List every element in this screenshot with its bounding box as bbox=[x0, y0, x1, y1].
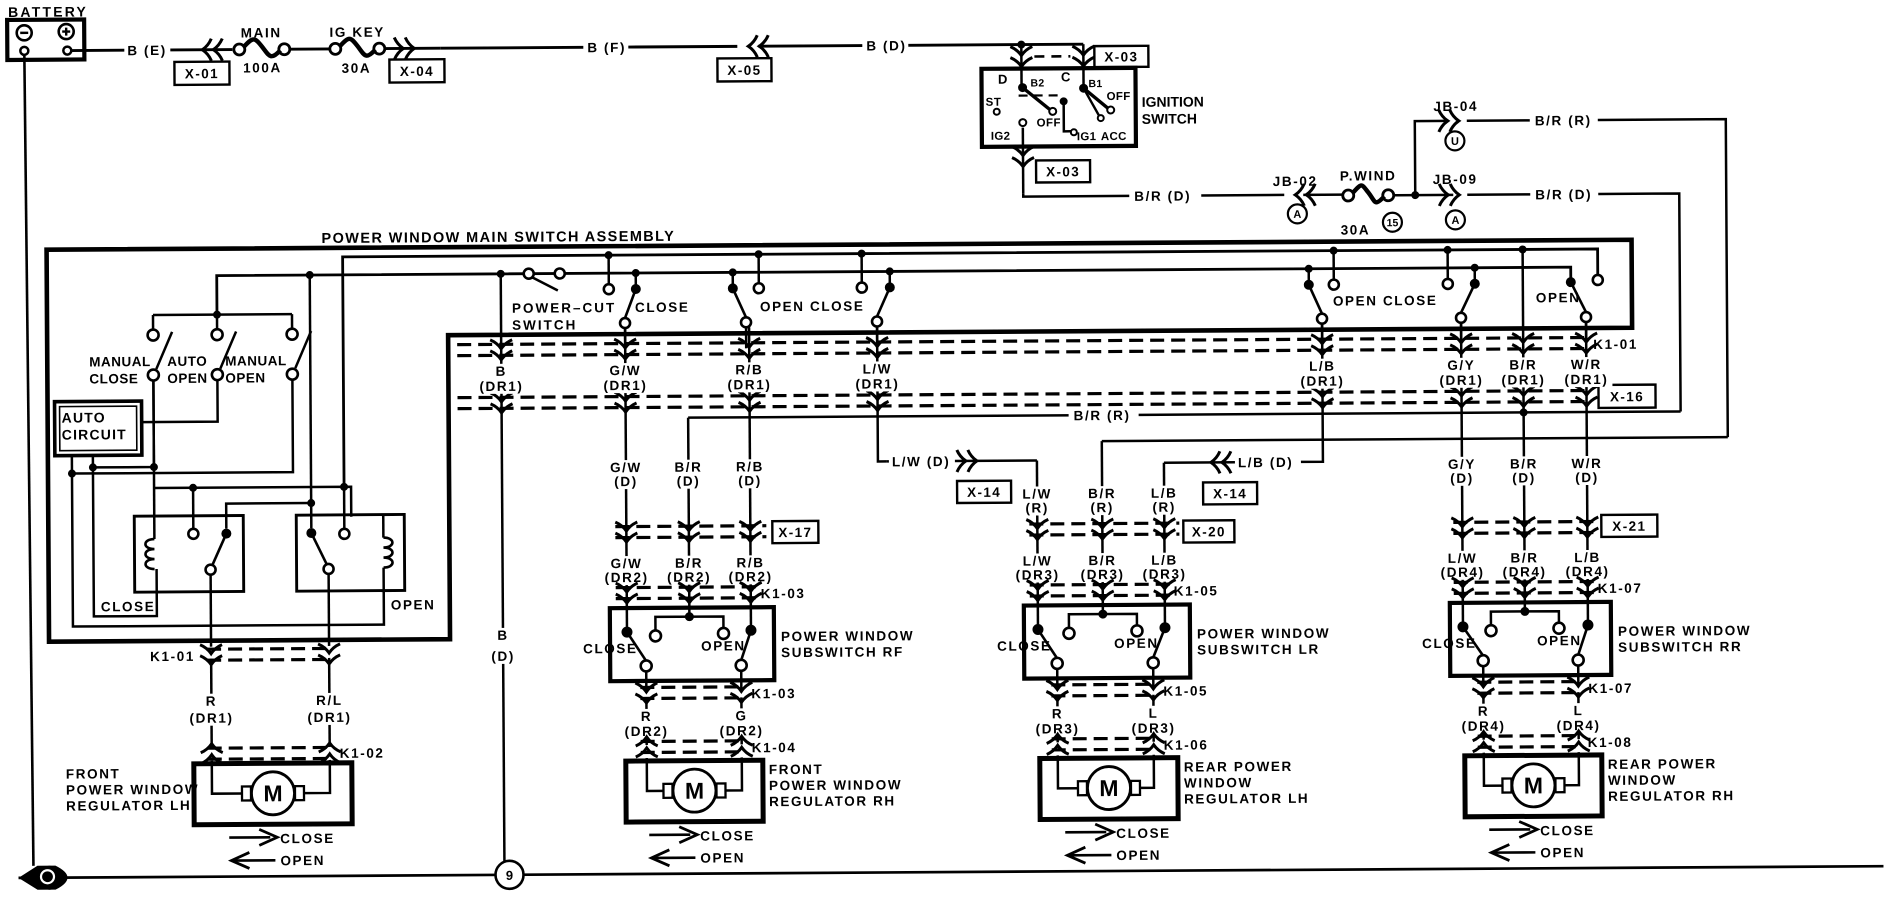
connector K1-03 row lower bbox=[640, 685, 744, 689]
svg-text:G/W: G/W bbox=[609, 363, 641, 378]
connector X-04 label bbox=[389, 59, 444, 82]
wire B/R(D) line A bbox=[688, 411, 1680, 417]
svg-text:OPEN: OPEN bbox=[1114, 636, 1159, 651]
svg-text:CLOSE: CLOSE bbox=[1540, 823, 1595, 838]
svg-text:REGULATOR LH: REGULATOR LH bbox=[1184, 791, 1309, 807]
wire JB-04 B/R(R) bbox=[1467, 119, 1530, 122]
svg-text:W/R: W/R bbox=[1571, 357, 1602, 372]
wire label L (DR3) bbox=[1129, 706, 1177, 736]
svg-text:OPEN: OPEN bbox=[1116, 848, 1161, 863]
wire L/W(D) jog bbox=[887, 459, 1037, 462]
wire label B/R (DR1) bbox=[1497, 357, 1549, 387]
wire label L/B (DR3) bbox=[1140, 553, 1188, 582]
svg-text:AUTO: AUTO bbox=[62, 409, 106, 425]
connector K1-07 row upper bbox=[1454, 580, 1596, 584]
auto circuit box bbox=[55, 401, 142, 456]
connector X-14 label 2 bbox=[1203, 482, 1257, 504]
svg-text:L/W: L/W bbox=[1023, 553, 1053, 568]
svg-text:L/W (D): L/W (D) bbox=[892, 454, 951, 469]
connector JB-02 chevron bbox=[1295, 184, 1315, 206]
wire label R/B (D) bbox=[728, 459, 772, 488]
connector JB-09 circle A bbox=[1446, 210, 1465, 229]
battery B1 bbox=[7, 19, 84, 59]
wire ignition terminal D bbox=[1020, 45, 1023, 86]
relay close contacts bbox=[188, 529, 198, 539]
wire B(E) to X-01 bbox=[170, 48, 232, 51]
svg-text:M: M bbox=[1524, 772, 1543, 798]
switch open front pass bbox=[729, 268, 737, 276]
wire label B/R (D) bbox=[1502, 456, 1546, 485]
svg-text:OPEN: OPEN bbox=[1540, 845, 1585, 860]
svg-text:A: A bbox=[1293, 209, 1301, 221]
svg-text:K1-05: K1-05 bbox=[1174, 583, 1219, 598]
wire relay K1-01 left row bbox=[207, 647, 332, 651]
svg-text:WINDOW: WINDOW bbox=[1608, 772, 1677, 787]
connector X-03 bottom chevron bbox=[1012, 147, 1034, 167]
svg-text:B/R (D): B/R (D) bbox=[1535, 187, 1592, 202]
wire B/R(D) down right side bbox=[1598, 193, 1680, 412]
relay open box K2 bbox=[296, 514, 404, 591]
svg-text:W/R: W/R bbox=[1571, 456, 1602, 471]
connector X-21 row bbox=[1453, 520, 1597, 524]
wire IG2 out bbox=[1022, 128, 1025, 194]
svg-text:(D): (D) bbox=[738, 473, 762, 488]
svg-text:OPEN: OPEN bbox=[701, 638, 746, 653]
connector X-03 label top bbox=[1094, 46, 1148, 67]
svg-text:CIRCUIT: CIRCUIT bbox=[62, 426, 127, 442]
switch open rear right bbox=[1519, 245, 1527, 253]
svg-text:CLOSE: CLOSE bbox=[101, 599, 156, 614]
svg-text:M: M bbox=[263, 780, 282, 806]
svg-text:X-04: X-04 bbox=[400, 64, 434, 79]
svg-text:WINDOW: WINDOW bbox=[1184, 775, 1253, 790]
junction ignition feed bbox=[1017, 41, 1025, 49]
connector X-20 row bbox=[1029, 522, 1179, 526]
motor M2 front RH bbox=[626, 760, 763, 822]
wire label R/B (DR1) bbox=[723, 362, 775, 392]
svg-text:OPEN: OPEN bbox=[1536, 290, 1581, 305]
svg-text:(DR1): (DR1) bbox=[1501, 372, 1545, 387]
connector K1-03 row upper bbox=[616, 585, 759, 589]
svg-text:R: R bbox=[206, 694, 217, 709]
wire label L/W (DR4) bbox=[1438, 551, 1486, 580]
svg-text:B/R (D): B/R (D) bbox=[1134, 189, 1191, 204]
connector X-17 row bbox=[615, 524, 766, 528]
wire label B/R (D) bbox=[666, 460, 710, 489]
switch open rear left bbox=[1305, 265, 1313, 273]
svg-text:OFF: OFF bbox=[1107, 91, 1131, 103]
wire B/R right column bbox=[1523, 249, 1525, 602]
svg-text:MAIN: MAIN bbox=[241, 25, 282, 40]
power window subswitch LR box bbox=[1024, 605, 1190, 679]
svg-text:9: 9 bbox=[506, 868, 513, 883]
svg-text:K1-07: K1-07 bbox=[1598, 581, 1643, 596]
svg-text:(R): (R) bbox=[1090, 500, 1114, 515]
svg-text:P.WIND: P.WIND bbox=[1340, 168, 1397, 183]
fuse P.WIND circle 15 bbox=[1383, 213, 1402, 232]
junction B column bbox=[497, 270, 505, 278]
svg-text:POWER WINDOW: POWER WINDOW bbox=[781, 628, 914, 644]
wire L/B(D) jog bbox=[1164, 461, 1299, 464]
switch close driver bbox=[632, 269, 640, 277]
svg-text:(DR2): (DR2) bbox=[729, 569, 773, 584]
svg-text:CLOSE: CLOSE bbox=[1116, 826, 1171, 841]
svg-text:OPEN: OPEN bbox=[280, 853, 325, 868]
wire close bus bbox=[343, 249, 1599, 487]
svg-text:CLOSE: CLOSE bbox=[280, 831, 335, 846]
wire B(F) to X-05 bbox=[628, 45, 737, 49]
svg-text:POWER–CUT: POWER–CUT bbox=[512, 300, 616, 316]
svg-text:SWITCH: SWITCH bbox=[1142, 110, 1197, 126]
svg-text:D: D bbox=[998, 72, 1009, 87]
manual switch risers bbox=[152, 315, 155, 330]
svg-text:K1-03: K1-03 bbox=[761, 586, 806, 601]
wire label L/W (DR3) bbox=[1013, 553, 1061, 582]
svg-text:JB-02: JB-02 bbox=[1273, 174, 1318, 189]
svg-text:(DR1): (DR1) bbox=[479, 379, 523, 394]
svg-text:(DR3): (DR3) bbox=[1016, 567, 1060, 582]
wire W/R column bbox=[1586, 322, 1588, 602]
wire relay open output bbox=[327, 574, 330, 646]
svg-text:K1-06: K1-06 bbox=[1164, 737, 1209, 752]
wire R/B column bbox=[749, 327, 751, 607]
svg-text:B (E): B (E) bbox=[127, 43, 167, 58]
svg-text:OFF: OFF bbox=[1037, 117, 1062, 129]
wire open bus bbox=[217, 267, 1571, 315]
svg-text:L: L bbox=[1574, 703, 1584, 718]
svg-text:R/B: R/B bbox=[736, 555, 764, 570]
svg-text:SUBSWITCH RF: SUBSWITCH RF bbox=[781, 644, 904, 660]
connector X-21 label bbox=[1601, 515, 1657, 537]
svg-text:R: R bbox=[641, 709, 652, 724]
wire auto circuit pin1 bbox=[71, 456, 74, 474]
switch manual close bbox=[148, 330, 159, 341]
wire label G/W (DR2) bbox=[603, 556, 651, 585]
wire label L/W (R) bbox=[1015, 486, 1059, 515]
svg-text:B1: B1 bbox=[1088, 78, 1102, 90]
wire open relay contact riser bbox=[343, 487, 346, 529]
svg-text:K1-07: K1-07 bbox=[1588, 681, 1633, 696]
svg-text:OPEN CLOSE: OPEN CLOSE bbox=[760, 299, 865, 315]
svg-text:X-16: X-16 bbox=[1610, 389, 1644, 404]
wire B/R RF drop bbox=[688, 418, 689, 608]
svg-text:CLOSE: CLOSE bbox=[635, 300, 690, 315]
wire label L/B (R) bbox=[1142, 486, 1186, 515]
svg-text:B: B bbox=[496, 364, 507, 379]
svg-text:R: R bbox=[1478, 704, 1489, 719]
wire IG2 to JB-02 bbox=[1023, 193, 1129, 197]
svg-text:L/W: L/W bbox=[1022, 486, 1052, 501]
svg-text:K1-05: K1-05 bbox=[1163, 683, 1208, 698]
connector X-04 chevron bbox=[394, 37, 414, 59]
ignition blade C-ACC bbox=[1084, 88, 1099, 115]
wire close relay filled riser bbox=[226, 503, 311, 529]
svg-text:ST: ST bbox=[986, 97, 1002, 109]
svg-text:B: B bbox=[497, 628, 508, 643]
svg-text:(DR4): (DR4) bbox=[1566, 564, 1610, 579]
wire L/B(R) drop bbox=[1163, 463, 1166, 605]
relay open contacts bbox=[306, 528, 316, 538]
svg-text:ACC: ACC bbox=[1101, 131, 1127, 143]
svg-text:B (F): B (F) bbox=[587, 40, 626, 55]
connector X-01 label bbox=[174, 62, 229, 85]
svg-text:REGULATOR RH: REGULATOR RH bbox=[1608, 788, 1735, 804]
svg-text:B/R (R): B/R (R) bbox=[1074, 408, 1131, 423]
wire label R/B (DR2) bbox=[727, 555, 775, 584]
wire B(F) bbox=[440, 46, 583, 50]
motor M2 close/open arrows bbox=[649, 833, 690, 836]
connector K1-05 row lower bbox=[1051, 683, 1156, 687]
svg-text:OPEN: OPEN bbox=[1537, 633, 1582, 648]
svg-text:MANUAL: MANUAL bbox=[89, 354, 151, 369]
wire label B/R (DR3) bbox=[1078, 553, 1126, 582]
wire label G (DR2) bbox=[717, 708, 765, 738]
connector X-05 chevron bbox=[748, 35, 768, 57]
wire manual close to auto circuit bbox=[92, 380, 154, 467]
connector X-01 chevron bbox=[202, 39, 222, 61]
connector JB-04 circle U bbox=[1445, 131, 1464, 150]
svg-text:G/W: G/W bbox=[610, 460, 642, 475]
switch manual open bbox=[287, 329, 298, 340]
wire open coil top stub bbox=[382, 515, 385, 538]
svg-text:K1-04: K1-04 bbox=[752, 740, 797, 755]
wire motor feed bbox=[645, 698, 648, 745]
svg-text:CLOSE: CLOSE bbox=[583, 641, 638, 656]
wire close relay contact riser bbox=[192, 488, 195, 529]
svg-text:X-05: X-05 bbox=[727, 63, 761, 78]
svg-text:OPEN: OPEN bbox=[700, 850, 745, 865]
wire label B (DR1) bbox=[475, 364, 527, 394]
fuse MAIN 100A bbox=[234, 44, 245, 55]
wire B(D) bbox=[758, 44, 862, 48]
svg-text:X-01: X-01 bbox=[185, 66, 219, 81]
svg-text:R/B: R/B bbox=[735, 362, 763, 377]
switch auto open bbox=[212, 329, 223, 340]
wire label B/R (DR2) bbox=[665, 556, 713, 585]
svg-text:OPEN: OPEN bbox=[391, 597, 436, 612]
svg-text:A: A bbox=[1451, 215, 1459, 227]
svg-text:30A: 30A bbox=[1341, 222, 1371, 237]
connector JB-02 circle A bbox=[1288, 204, 1307, 223]
power window subswitch RF box bbox=[610, 607, 774, 681]
ground symbol bbox=[18, 866, 67, 890]
svg-text:(DR1): (DR1) bbox=[189, 711, 233, 726]
wire manual switch bus bbox=[153, 313, 292, 316]
svg-text:K1-01: K1-01 bbox=[150, 649, 195, 664]
svg-text:X-03: X-03 bbox=[1046, 164, 1080, 179]
svg-text:POWER WINDOW: POWER WINDOW bbox=[1618, 623, 1751, 639]
wire label G/Y (DR1) bbox=[1435, 358, 1487, 388]
wire JB-02 to fuse bbox=[1303, 193, 1343, 196]
connector X-17 label bbox=[772, 521, 818, 543]
wire to JB-04 bbox=[1415, 121, 1449, 195]
connector K1-06 row bbox=[1052, 737, 1157, 741]
wire between fuses bbox=[289, 47, 330, 50]
svg-text:L: L bbox=[1149, 706, 1159, 721]
svg-text:(DR1): (DR1) bbox=[1564, 372, 1608, 387]
wire relay close output bbox=[209, 575, 212, 647]
wire open bus to relay bbox=[310, 275, 312, 528]
svg-text:REGULATOR LH: REGULATOR LH bbox=[66, 798, 191, 814]
svg-text:B/R: B/R bbox=[1088, 486, 1116, 501]
connector X-16 row bbox=[458, 391, 1591, 398]
wire label L/W (D) bbox=[889, 453, 955, 469]
relay open coil L2 bbox=[383, 538, 392, 568]
wire label L (DR4) bbox=[1554, 703, 1602, 733]
motor M4 rear RH bbox=[1465, 755, 1602, 817]
connector JB-04 chevron bbox=[1439, 110, 1459, 132]
svg-text:(DR2): (DR2) bbox=[667, 570, 711, 585]
svg-text:FRONT: FRONT bbox=[769, 762, 824, 777]
svg-text:IG2: IG2 bbox=[991, 131, 1011, 143]
ignition switch box U1 bbox=[981, 68, 1135, 147]
wire label L/B (DR1) bbox=[1296, 359, 1348, 389]
wire close coil feed bbox=[152, 380, 155, 539]
svg-text:G/W: G/W bbox=[611, 556, 643, 571]
wire label L/B (D) bbox=[1235, 454, 1301, 470]
svg-text:(DR2): (DR2) bbox=[605, 570, 649, 585]
motor M3 rear LH bbox=[1040, 758, 1178, 820]
svg-text:IG1: IG1 bbox=[1077, 131, 1097, 143]
svg-text:B/R (R): B/R (R) bbox=[1535, 113, 1592, 128]
wire label B (D) column bbox=[487, 628, 519, 664]
node 9 page connector bbox=[495, 861, 523, 889]
svg-text:B/R: B/R bbox=[1088, 553, 1116, 568]
svg-text:REGULATOR RH: REGULATOR RH bbox=[769, 793, 896, 809]
svg-text:L/B: L/B bbox=[1309, 359, 1336, 374]
wire JB-09 B/R(D) bbox=[1467, 193, 1530, 196]
wire label R/L (DR1) bbox=[303, 693, 355, 725]
svg-text:U: U bbox=[1451, 136, 1459, 148]
wire motor feed bbox=[210, 659, 213, 748]
switch close front pass bbox=[886, 267, 894, 275]
wire B(D) to ignition switch bbox=[908, 43, 1021, 47]
wire B/R(R) line B bbox=[1102, 437, 1728, 441]
ground line bbox=[19, 866, 1884, 878]
svg-text:K1-03: K1-03 bbox=[751, 686, 796, 701]
svg-text:(D): (D) bbox=[1450, 471, 1474, 486]
wire auto circuit pin2 bbox=[92, 455, 95, 467]
svg-text:B (D): B (D) bbox=[866, 38, 906, 53]
wire G/Y column bbox=[1461, 323, 1463, 603]
svg-text:(DR3): (DR3) bbox=[1143, 567, 1187, 582]
svg-text:B2: B2 bbox=[1030, 77, 1044, 89]
svg-text:B/R: B/R bbox=[674, 460, 702, 475]
connector K1-04 row bbox=[641, 739, 745, 743]
svg-text:IGNITION: IGNITION bbox=[1142, 93, 1204, 109]
wire label L/W (DR1) bbox=[851, 361, 903, 391]
wire manual open to open coil bbox=[71, 379, 293, 473]
junction P.WIND output bbox=[1411, 191, 1419, 199]
svg-text:C: C bbox=[1061, 69, 1072, 84]
wire label W/R (D) bbox=[1565, 456, 1609, 485]
svg-text:POWER WINDOW: POWER WINDOW bbox=[66, 782, 199, 798]
svg-text:100A: 100A bbox=[243, 60, 282, 75]
ignition IG2 terminal bbox=[1019, 119, 1026, 126]
svg-text:X-03: X-03 bbox=[1104, 49, 1138, 64]
connector K1-07 row lower bbox=[1477, 680, 1581, 684]
wire open coil left leg bbox=[72, 472, 384, 627]
svg-text:K1-01: K1-01 bbox=[1593, 337, 1638, 352]
svg-text:X-14: X-14 bbox=[1213, 486, 1247, 501]
svg-text:CLOSE: CLOSE bbox=[700, 828, 755, 843]
svg-text:G/Y: G/Y bbox=[1447, 358, 1475, 373]
svg-text:B/R: B/R bbox=[1510, 550, 1538, 565]
wire L/W column upper bbox=[877, 326, 887, 461]
wire B/R(R) down right side bbox=[1598, 119, 1728, 438]
wire battery negative to ground bbox=[24, 55, 33, 866]
connector X-03 chevrons bbox=[1010, 47, 1032, 67]
svg-text:MANUAL: MANUAL bbox=[225, 353, 287, 368]
svg-text:B/R: B/R bbox=[1509, 357, 1537, 372]
svg-text:B/R: B/R bbox=[675, 556, 703, 571]
svg-text:L/W: L/W bbox=[863, 361, 893, 376]
wire label G/W (D) bbox=[604, 460, 648, 489]
ignition terminal C contact bbox=[1079, 84, 1088, 93]
switch close rear left bbox=[1471, 264, 1479, 272]
wire label G/W (DR1) bbox=[599, 363, 651, 393]
svg-text:POWER WINDOW: POWER WINDOW bbox=[1197, 626, 1330, 642]
svg-text:(D): (D) bbox=[1512, 470, 1536, 485]
connector X-14 chevron right bbox=[957, 450, 977, 472]
svg-text:R: R bbox=[1052, 706, 1063, 721]
svg-text:REAR POWER: REAR POWER bbox=[1608, 756, 1717, 772]
wire to JB-02 bbox=[1201, 194, 1284, 197]
svg-text:IG KEY: IG KEY bbox=[329, 25, 384, 40]
svg-text:R/L: R/L bbox=[316, 693, 343, 708]
svg-text:G/Y: G/Y bbox=[1448, 457, 1476, 472]
svg-text:B/R: B/R bbox=[1510, 456, 1538, 471]
svg-text:OPEN CLOSE: OPEN CLOSE bbox=[1333, 293, 1438, 309]
connector K1-02 row bbox=[208, 746, 333, 750]
svg-text:(DR3): (DR3) bbox=[1081, 567, 1125, 582]
svg-text:G: G bbox=[735, 708, 747, 723]
svg-text:L/B: L/B bbox=[1151, 553, 1178, 568]
svg-text:OPEN: OPEN bbox=[167, 371, 207, 386]
wire label R (DR3) bbox=[1033, 706, 1081, 736]
svg-text:(DR1): (DR1) bbox=[307, 710, 351, 725]
svg-text:POWER WINDOW: POWER WINDOW bbox=[769, 777, 902, 793]
svg-text:(D): (D) bbox=[1575, 470, 1599, 485]
svg-text:SWITCH: SWITCH bbox=[512, 317, 577, 332]
fuse IG KEY 30A bbox=[330, 43, 341, 54]
ignition dashed link bbox=[1019, 94, 1063, 96]
svg-text:CLOSE: CLOSE bbox=[997, 638, 1052, 653]
svg-text:(DR4): (DR4) bbox=[1503, 564, 1547, 579]
svg-text:(DR1): (DR1) bbox=[1300, 374, 1344, 389]
motor M3 close/open arrows bbox=[1065, 831, 1106, 834]
svg-text:(D): (D) bbox=[677, 474, 701, 489]
svg-text:X-14: X-14 bbox=[967, 485, 1001, 500]
svg-text:M: M bbox=[1099, 775, 1118, 801]
wire L/B column upper bbox=[1298, 324, 1323, 462]
power window subswitch RR box bbox=[1450, 602, 1611, 676]
wire L/W(R) drop bbox=[1036, 460, 1039, 605]
wire close coil left leg bbox=[93, 467, 157, 616]
svg-text:(DR1): (DR1) bbox=[603, 378, 647, 393]
connector K1-01 row bbox=[457, 338, 1587, 345]
ignition IG1 wire bbox=[1060, 97, 1068, 105]
svg-text:REAR POWER: REAR POWER bbox=[1184, 759, 1293, 775]
wire label B/R (R) bbox=[1080, 486, 1124, 515]
svg-text:X-17: X-17 bbox=[778, 525, 812, 540]
fuse P.WIND 30A bbox=[1343, 190, 1354, 201]
svg-text:X-21: X-21 bbox=[1612, 519, 1646, 534]
wire B column bbox=[501, 274, 505, 861]
svg-text:JB-09: JB-09 bbox=[1433, 172, 1478, 187]
svg-text:(D): (D) bbox=[491, 649, 515, 664]
svg-text:(DR1): (DR1) bbox=[1439, 373, 1483, 388]
